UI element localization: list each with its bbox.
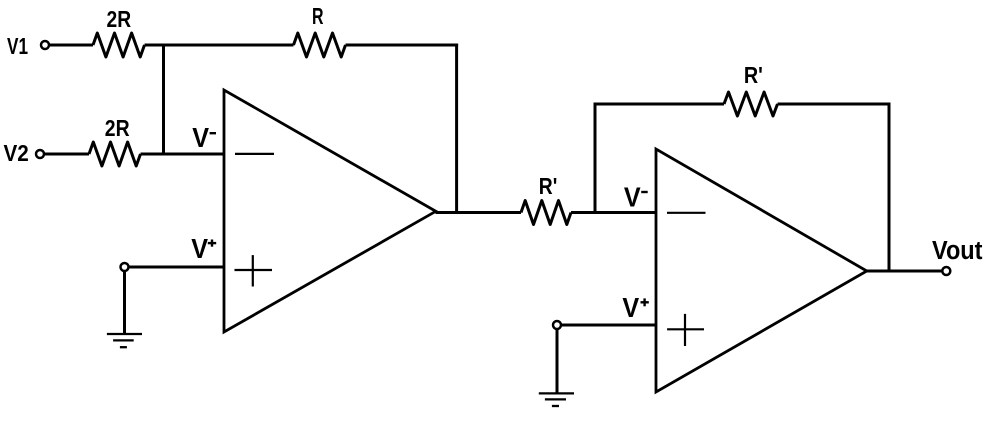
node V2 terminal bbox=[36, 150, 44, 158]
svg-text:Vout: Vout bbox=[932, 237, 983, 265]
svg-text:V1: V1 bbox=[7, 33, 28, 59]
ground (op-amp 1) bbox=[107, 333, 142, 335]
svg-text:V: V bbox=[624, 182, 641, 213]
node Vout terminal bbox=[942, 267, 950, 275]
resistor R bbox=[294, 33, 346, 57]
wire feedback drop to op-amp 1 output bbox=[455, 44, 458, 213]
U1 plus symbol bbox=[235, 269, 273, 271]
wire feedback riser op-amp 2 bbox=[594, 103, 597, 213]
wire op-amp 2 output bbox=[867, 270, 943, 273]
wire R' to op-amp 2 inverting input bbox=[571, 211, 656, 214]
wire V1 to 2R bbox=[50, 44, 93, 47]
op-amp U1 bbox=[224, 90, 436, 332]
op-amp U2 bbox=[656, 149, 867, 392]
wire R to right corner bbox=[346, 44, 459, 47]
node V1 terminal bbox=[41, 41, 49, 49]
node op-amp2 noninverting terminal bbox=[553, 321, 561, 329]
node op-amp1 noninverting terminal bbox=[121, 263, 129, 271]
ground (op-amp 2) bbox=[539, 392, 574, 394]
wire terminal to op-amp 2 V+ bbox=[562, 324, 656, 327]
svg-text:R': R' bbox=[744, 62, 763, 88]
svg-text:R: R bbox=[312, 3, 324, 29]
wire 2R to op-amp 1 inverting input bbox=[141, 153, 225, 156]
wire terminal to op-amp 1 V+ bbox=[130, 266, 225, 269]
U2 plus symbol bbox=[667, 328, 704, 330]
svg-text:V: V bbox=[622, 292, 639, 323]
wire V2 to 2R bbox=[45, 153, 89, 156]
svg-text:V: V bbox=[191, 233, 208, 264]
wire feedback drop to output bbox=[888, 103, 891, 272]
resistor R' (feedback) bbox=[724, 92, 778, 116]
svg-text:V2: V2 bbox=[4, 140, 29, 166]
svg-text:2R: 2R bbox=[105, 115, 130, 141]
U2 minus symbol bbox=[667, 212, 706, 214]
node junction V1/V2 summing bbox=[162, 45, 165, 154]
resistor 2R (top input) bbox=[93, 33, 145, 57]
wire terminal to ground 2 bbox=[556, 329, 559, 393]
svg-text:R': R' bbox=[539, 173, 558, 199]
resistor 2R (bottom input) bbox=[89, 142, 141, 166]
wire 2R to R along top bbox=[145, 44, 294, 47]
svg-text:2R: 2R bbox=[107, 6, 132, 32]
wire feedback top right bbox=[778, 103, 891, 106]
wire op-amp 1 output to R' bbox=[436, 211, 522, 214]
resistor R' (series) bbox=[521, 201, 571, 225]
svg-text:V: V bbox=[192, 122, 209, 153]
wire feedback top left bbox=[594, 103, 725, 106]
wire terminal to ground 1 bbox=[123, 271, 126, 334]
U1 minus symbol bbox=[235, 153, 274, 155]
